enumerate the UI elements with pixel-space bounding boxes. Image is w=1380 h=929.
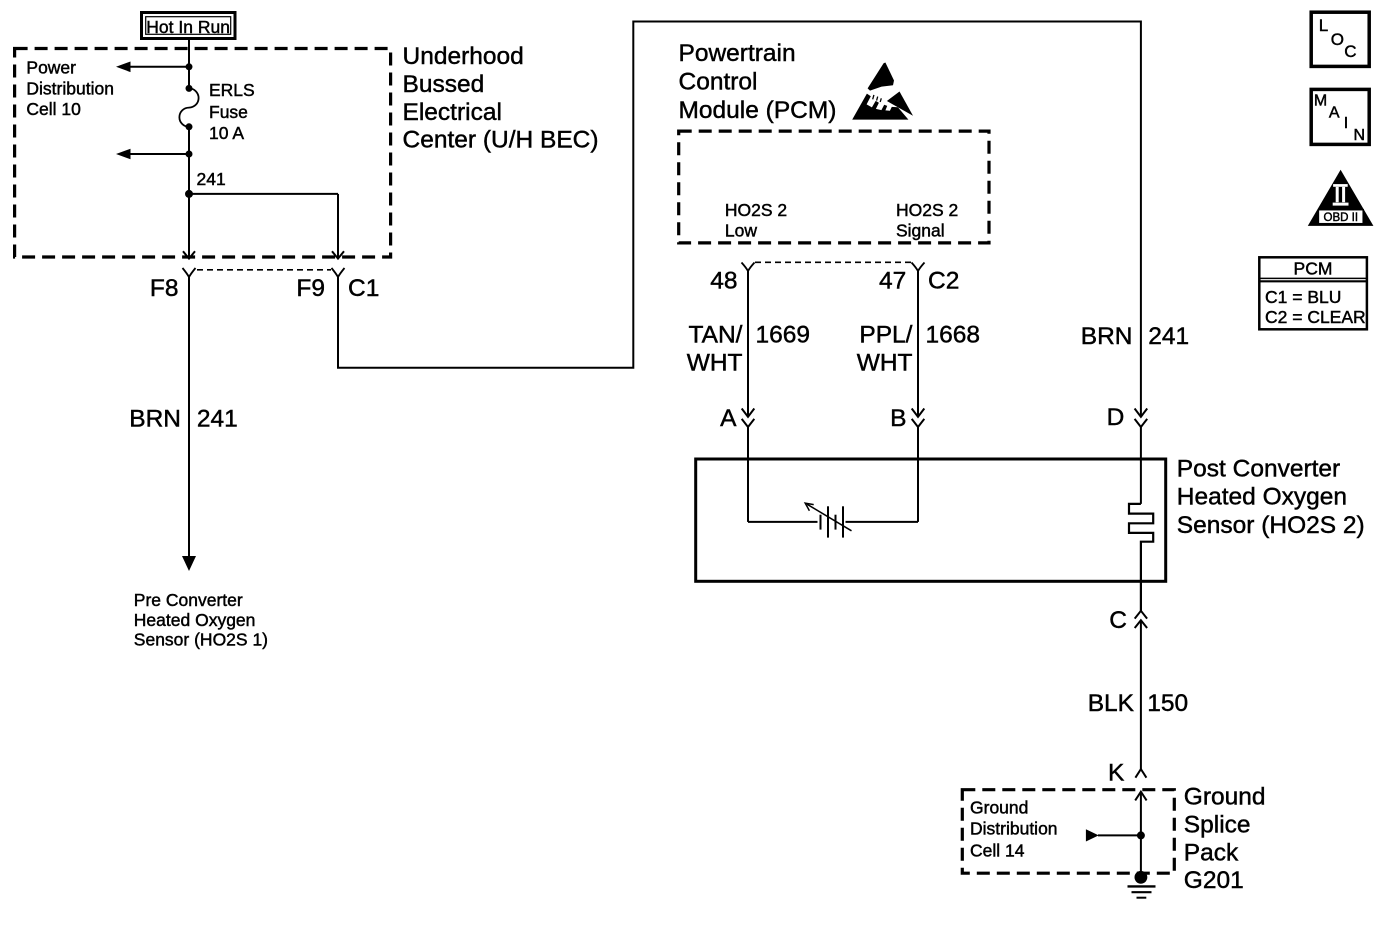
wire down to F8 bbox=[188, 154, 190, 259]
svg-text:A: A bbox=[1329, 104, 1340, 121]
label Ground Splice Pack G201 bbox=[1184, 784, 1266, 895]
label HO2S 2 Signal bbox=[896, 200, 958, 241]
wire from F9/C1 to PCM feed (BRN 241 right) bbox=[338, 22, 1141, 417]
svg-text:BLK: BLK bbox=[1088, 690, 1135, 717]
svg-text:Ground: Ground bbox=[970, 797, 1028, 817]
svg-text:C1 = BLU: C1 = BLU bbox=[1265, 287, 1341, 307]
sensor element (variable cell) bbox=[748, 503, 918, 537]
svg-text:Powertrain: Powertrain bbox=[679, 40, 796, 67]
label BLK 150 bbox=[1088, 690, 1189, 717]
label Pre Converter Heated Oxygen Sensor (HO2S 1) bbox=[134, 590, 268, 650]
wire B into sensor box bbox=[917, 427, 919, 522]
svg-text:Low: Low bbox=[725, 221, 757, 241]
svg-text:Distribution: Distribution bbox=[26, 78, 114, 98]
svg-text:HO2S 2: HO2S 2 bbox=[896, 200, 958, 220]
connector terminal pin 47 bbox=[912, 263, 925, 272]
svg-text:C: C bbox=[1109, 607, 1127, 634]
svg-text:Cell 10: Cell 10 bbox=[26, 99, 81, 119]
wire pin 47 down to B bbox=[917, 271, 919, 417]
legend box MAIN bbox=[1311, 89, 1369, 144]
junction dot upper bbox=[186, 63, 193, 70]
svg-text:Pack: Pack bbox=[1184, 840, 1239, 867]
label Post Converter Heated Oxygen Sensor (HO2S 2) bbox=[1177, 455, 1365, 539]
svg-text:Sensor (HO2S 2): Sensor (HO2S 2) bbox=[1177, 512, 1365, 539]
svg-text:PCM: PCM bbox=[1294, 259, 1333, 279]
svg-text:PPL/: PPL/ bbox=[859, 322, 912, 349]
label PPL/WHT 1668 bbox=[857, 322, 980, 377]
svg-text:Electrical: Electrical bbox=[403, 99, 502, 126]
heater element bbox=[1129, 504, 1153, 611]
svg-text:Cell 14: Cell 14 bbox=[970, 840, 1025, 860]
dashed box Underhood Bussed Electrical Center bbox=[15, 49, 391, 258]
svg-text:O: O bbox=[1331, 30, 1344, 49]
junction dot lower bbox=[186, 151, 193, 158]
pin A chevron arrows bbox=[742, 409, 755, 428]
branch arrow left (upper) bbox=[116, 62, 189, 73]
connector terminal F8 bbox=[183, 268, 196, 277]
svg-text:48: 48 bbox=[710, 267, 737, 294]
pin D chevron arrows bbox=[1135, 409, 1148, 428]
pin K chevron bbox=[1135, 769, 1146, 778]
svg-text:D: D bbox=[1107, 404, 1125, 431]
arrowhead to HO2S 1 bbox=[182, 556, 196, 571]
wire junction to fuse bbox=[188, 67, 190, 89]
fuse ERLS 10 A bbox=[179, 85, 198, 130]
svg-text:A: A bbox=[720, 405, 737, 432]
label Powertrain Control Module (PCM) bbox=[679, 40, 837, 124]
svg-text:K: K bbox=[1108, 759, 1125, 786]
legend table PCM connectors bbox=[1259, 257, 1367, 329]
svg-text:Module (PCM): Module (PCM) bbox=[679, 97, 837, 124]
svg-text:Center (U/H BEC): Center (U/H BEC) bbox=[403, 127, 599, 154]
pin B chevron arrows bbox=[912, 409, 925, 428]
svg-text:BRN: BRN bbox=[129, 405, 181, 432]
svg-text:HO2S 2: HO2S 2 bbox=[725, 200, 787, 220]
svg-text:WHT: WHT bbox=[687, 350, 743, 377]
label TAN/WHT 1669 bbox=[687, 322, 810, 377]
connector terminal pin 48 bbox=[742, 263, 755, 272]
legend box LOC bbox=[1311, 12, 1369, 66]
svg-text:Splice: Splice bbox=[1184, 812, 1251, 839]
pin C chevron arrows bbox=[1135, 611, 1147, 628]
svg-text:BRN: BRN bbox=[1081, 323, 1133, 350]
svg-text:I: I bbox=[1344, 115, 1348, 132]
wire pin 48 down to A bbox=[747, 271, 749, 417]
ground splice up arrow bbox=[1135, 792, 1146, 801]
wire BLK 150 bbox=[1140, 620, 1142, 769]
node 241 splice dot bbox=[185, 190, 193, 198]
svg-text:N: N bbox=[1354, 127, 1366, 144]
svg-text:C: C bbox=[1344, 42, 1356, 61]
svg-text:OBD II: OBD II bbox=[1324, 212, 1359, 224]
wire fuse to lower junction bbox=[188, 127, 190, 154]
svg-text:G201: G201 bbox=[1184, 867, 1244, 894]
svg-text:B: B bbox=[890, 405, 906, 432]
svg-text:Fuse: Fuse bbox=[209, 102, 248, 122]
svg-text:241: 241 bbox=[197, 405, 238, 432]
svg-text:Ground: Ground bbox=[1184, 784, 1266, 811]
svg-text:C2: C2 bbox=[928, 267, 959, 294]
label Power Distribution Cell 10 bbox=[26, 58, 114, 119]
label BRN 241 right wire bbox=[1081, 323, 1189, 350]
svg-text:Pre Converter: Pre Converter bbox=[134, 590, 243, 610]
label BRN 241 left wire bbox=[129, 405, 238, 432]
component box HO2S 2 bbox=[696, 459, 1166, 581]
svg-text:Post Converter: Post Converter bbox=[1177, 455, 1340, 482]
svg-text:Control: Control bbox=[679, 69, 758, 96]
OBD II triangle symbol bbox=[1308, 170, 1374, 226]
wire D into sensor box bbox=[1140, 427, 1142, 504]
svg-text:L: L bbox=[1319, 16, 1328, 35]
label Underhood Bussed Electrical Center (U/H BEC) bbox=[403, 43, 599, 153]
svg-text:241: 241 bbox=[1148, 323, 1189, 350]
svg-text:47: 47 bbox=[879, 267, 906, 294]
svg-text:10 A: 10 A bbox=[209, 123, 244, 143]
svg-text:150: 150 bbox=[1147, 690, 1188, 717]
chevron arrow into F9 bbox=[332, 251, 344, 258]
splice junction dot bbox=[1137, 831, 1145, 839]
svg-text:Underhood: Underhood bbox=[403, 43, 524, 70]
svg-text:C2 = CLEAR: C2 = CLEAR bbox=[1265, 307, 1366, 327]
label ERLS Fuse 10 A bbox=[209, 80, 255, 143]
svg-text:241: 241 bbox=[197, 169, 226, 189]
label Ground Distribution Cell 14 bbox=[970, 797, 1058, 860]
svg-text:Heated Oxygen: Heated Oxygen bbox=[1177, 484, 1347, 511]
svg-text:1668: 1668 bbox=[926, 322, 981, 349]
svg-text:Sensor (HO2S 1): Sensor (HO2S 1) bbox=[134, 630, 268, 650]
power flag box "Hot In Run" bbox=[142, 13, 236, 39]
label HO2S 2 Low bbox=[725, 200, 787, 241]
connector C2 dashed link line bbox=[755, 261, 911, 263]
wire from Hot In Run down to first junction bbox=[188, 40, 190, 67]
svg-text:Signal: Signal bbox=[896, 221, 945, 241]
svg-text:Bussed: Bussed bbox=[403, 71, 485, 98]
svg-text:1669: 1669 bbox=[756, 322, 811, 349]
connector terminal F9 bbox=[332, 268, 345, 277]
svg-text:Power: Power bbox=[26, 58, 76, 78]
connector C1 dashed link line bbox=[197, 269, 331, 271]
ground symbol G201 bbox=[1128, 871, 1156, 898]
wire splice to F9 branch bbox=[189, 193, 338, 195]
wire A into sensor box bbox=[747, 427, 749, 522]
svg-text:TAN/: TAN/ bbox=[689, 322, 743, 349]
svg-text:F9: F9 bbox=[296, 275, 325, 302]
svg-text:WHT: WHT bbox=[857, 350, 913, 377]
branch arrow left (lower) bbox=[116, 149, 189, 160]
svg-text:Heated Oxygen: Heated Oxygen bbox=[134, 610, 256, 630]
dashed box PCM bbox=[679, 131, 989, 243]
svg-text:Distribution: Distribution bbox=[970, 819, 1058, 839]
svg-text:Hot In Run: Hot In Run bbox=[146, 17, 230, 37]
chevron arrow into F8 bbox=[183, 251, 195, 258]
ESD sensitivity symbol bbox=[852, 63, 913, 120]
svg-text:C1: C1 bbox=[348, 275, 379, 302]
svg-text:ERLS: ERLS bbox=[209, 80, 255, 100]
dashed box Ground Distribution Cell 14 bbox=[962, 790, 1174, 874]
wire BRN 241 from F8 down bbox=[188, 277, 190, 557]
svg-text:M: M bbox=[1314, 93, 1327, 110]
svg-text:F8: F8 bbox=[150, 275, 179, 302]
branch arrow to cell 14 bbox=[1086, 829, 1141, 841]
